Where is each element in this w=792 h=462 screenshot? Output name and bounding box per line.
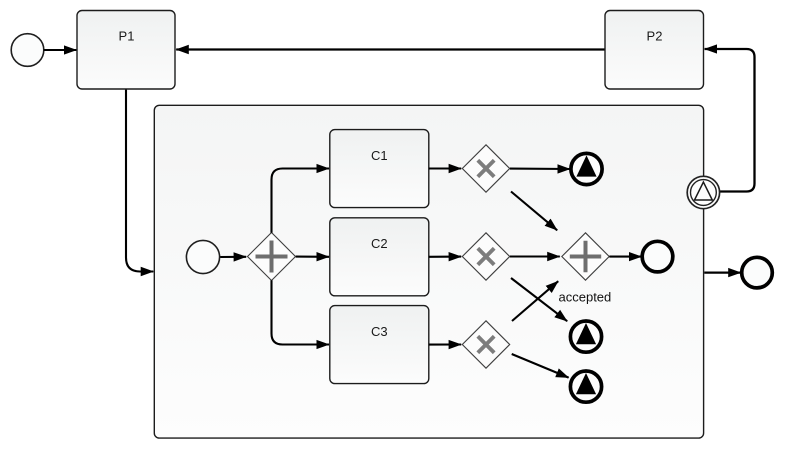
- task C3: [330, 306, 429, 384]
- task P1: [77, 11, 175, 90]
- exclusive gateway X3: [462, 321, 509, 368]
- boundary signal event: [687, 176, 719, 208]
- task C1: [330, 130, 429, 208]
- signal end event mid: [570, 321, 601, 352]
- wire C1 to X1: [429, 167, 461, 169]
- wire P1 to subprocess: [126, 89, 153, 272]
- wire GW1 to C3: [272, 280, 330, 344]
- wire subprocess to final end event: [704, 271, 741, 273]
- wire P2 to P1: [176, 48, 605, 50]
- start event (inner): [186, 240, 219, 273]
- task C2: [330, 218, 429, 296]
- wire X3 to GW2 (diagonal up): [512, 281, 558, 321]
- wire X1 to GW2 (diagonal): [511, 192, 557, 231]
- start event (outer): [11, 34, 44, 67]
- wire GW2 to end event: [609, 256, 641, 258]
- signal end event bottom: [570, 371, 601, 402]
- wire GW1 to C1: [272, 169, 330, 233]
- svg-text:C2: C2: [371, 236, 388, 251]
- svg-text:C3: C3: [371, 324, 388, 339]
- wire X2 to signal end mid (diagonal): [511, 278, 567, 321]
- task P2: [605, 11, 704, 90]
- wire X2 to GW2: [510, 255, 560, 257]
- wire GW1 to C2: [296, 256, 329, 258]
- svg-text:accepted: accepted: [559, 290, 612, 305]
- svg-text:P2: P2: [647, 29, 663, 44]
- svg-text:C1: C1: [371, 148, 388, 163]
- svg-text:P1: P1: [119, 29, 135, 44]
- wire C3 to X3: [429, 343, 461, 345]
- subprocess container: [154, 105, 703, 438]
- signal end event top: [571, 153, 602, 184]
- wire start to P1: [44, 49, 77, 51]
- end event inner: [642, 241, 673, 272]
- exclusive gateway X2: [462, 233, 509, 280]
- wire inner start to parallel gateway: [220, 256, 246, 258]
- wire X3 to signal end bottom (diagonal): [512, 354, 569, 378]
- parallel gateway GW1: [248, 233, 296, 281]
- wire boundary event to P2: [705, 49, 755, 192]
- exclusive gateway X1: [462, 145, 509, 192]
- wire X1 to signal end top: [510, 168, 570, 170]
- end event final: [742, 257, 773, 288]
- parallel gateway GW2 (merge): [562, 233, 609, 280]
- wire C2 to X2: [429, 256, 461, 258]
